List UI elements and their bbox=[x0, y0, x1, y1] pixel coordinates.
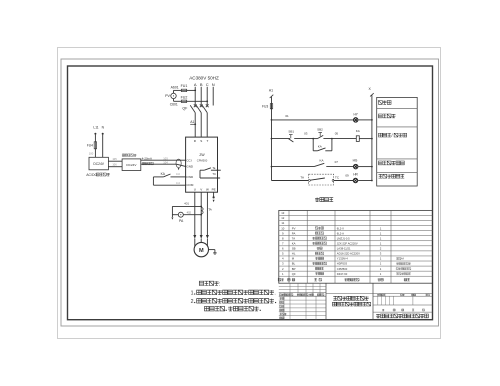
svg-text:FU2: FU2 bbox=[181, 96, 188, 100]
shielded cable symbol bbox=[176, 159, 181, 170]
table row: fuse bbox=[378, 101, 391, 105]
power supply DC24V (AC/DC) bbox=[86, 157, 110, 177]
svg-text:M: M bbox=[199, 248, 204, 254]
svg-text:CPM500: CPM500 bbox=[197, 159, 208, 163]
BOM rows bbox=[281, 211, 411, 276]
svg-text:110: 110 bbox=[176, 173, 181, 176]
relay contact Ta/TC inside inverter bbox=[200, 166, 221, 179]
svg-text:DC24V: DC24V bbox=[126, 163, 137, 167]
svg-text:TA: TA bbox=[292, 236, 296, 240]
notes heading bbox=[199, 281, 220, 287]
wire 104 (current input) bbox=[141, 161, 186, 167]
current transformer TA bbox=[201, 207, 212, 214]
node A1 control tap bbox=[190, 120, 196, 125]
svg-text:N: N bbox=[212, 82, 215, 87]
svg-text:12: 12 bbox=[281, 216, 285, 220]
wire V output bbox=[200, 192, 203, 242]
svg-text:B: B bbox=[200, 82, 203, 87]
inverter terminals R S T bbox=[194, 139, 209, 143]
svg-text:C601: C601 bbox=[170, 103, 178, 107]
fuse FU1 bbox=[174, 84, 196, 92]
wire 100 bbox=[89, 152, 94, 156]
svg-text:05: 05 bbox=[335, 132, 339, 136]
svg-text::: : bbox=[219, 282, 220, 288]
inverter terminal COM bbox=[186, 183, 194, 187]
svg-text:QF: QF bbox=[182, 106, 188, 110]
svg-text:A1: A1 bbox=[269, 88, 273, 92]
svg-text:S: S bbox=[200, 139, 202, 143]
phase terminal labels A B C N bbox=[194, 82, 215, 87]
svg-text:COM: COM bbox=[186, 183, 194, 187]
wire neutral N drop bbox=[212, 87, 214, 106]
svg-text:PE: PE bbox=[212, 188, 216, 192]
svg-text:03: 03 bbox=[304, 132, 308, 136]
svg-text:HG: HG bbox=[353, 158, 358, 162]
ground (meter circuit) bbox=[171, 206, 173, 219]
svg-text:6L2-A: 6L2-A bbox=[337, 231, 344, 235]
svg-text:C: C bbox=[206, 82, 209, 87]
svg-text:KA: KA bbox=[318, 144, 322, 148]
svg-text:CCI: CCI bbox=[186, 158, 191, 162]
ammeter PA bbox=[172, 212, 184, 223]
lamp HY (power indication) bbox=[353, 112, 372, 122]
svg-text:PV: PV bbox=[292, 226, 296, 230]
svg-text:01: 01 bbox=[285, 114, 289, 118]
stage mark / weight / scale headers bbox=[377, 294, 429, 296]
svg-text:A1: A1 bbox=[190, 120, 194, 124]
svg-text:QF: QF bbox=[292, 272, 296, 276]
svg-text:HR: HR bbox=[353, 173, 358, 177]
BOM header row bbox=[278, 278, 410, 281]
svg-text:6L2-V: 6L2-V bbox=[337, 226, 344, 230]
wire 01 (rung 1) bbox=[271, 114, 354, 121]
lamp HG (run indication) bbox=[353, 158, 373, 168]
svg-text:L11: L11 bbox=[93, 126, 98, 130]
sheet count row (gong zhang di zhang) bbox=[382, 309, 424, 311]
svg-text:KA: KA bbox=[319, 159, 323, 163]
svg-text:SB1: SB1 bbox=[288, 130, 294, 134]
relay contact KA (run) bbox=[271, 159, 354, 168]
table row: fault indication bbox=[378, 174, 404, 178]
svg-text:2: 2 bbox=[191, 299, 194, 305]
wire phase B drop bbox=[200, 87, 202, 105]
svg-text:13: 13 bbox=[281, 211, 285, 215]
node junction on phase C bbox=[206, 100, 208, 102]
svg-text:DZ47-60: DZ47-60 bbox=[337, 272, 348, 276]
svg-text:402: 402 bbox=[187, 211, 192, 215]
voltmeter PV bbox=[165, 90, 176, 101]
ground (motor frame) bbox=[209, 250, 217, 255]
inverter U1 ZW CPM500 bbox=[186, 137, 218, 192]
wire 106 bbox=[108, 163, 122, 167]
pressure transmitter BL bbox=[122, 154, 141, 171]
svg-text:Ta: Ta bbox=[212, 166, 215, 170]
svg-text:AC/DC: AC/DC bbox=[86, 173, 97, 177]
title block grid bbox=[279, 283, 433, 320]
relay contact KA (seal-in) bbox=[313, 139, 332, 151]
svg-text:FU4: FU4 bbox=[87, 143, 93, 147]
wire 05 bbox=[323, 132, 356, 140]
inverter terminal GND bbox=[186, 164, 194, 168]
svg-text:PA: PA bbox=[292, 231, 296, 235]
wire COM return bbox=[153, 177, 185, 185]
wire 103 (4-20mA) bbox=[141, 156, 186, 160]
svg-text:BP: BP bbox=[292, 267, 296, 271]
svg-text:TC: TC bbox=[212, 172, 216, 176]
right rail (X) bbox=[371, 95, 373, 180]
node A601 bbox=[171, 86, 179, 90]
svg-text:FWD: FWD bbox=[186, 175, 194, 179]
svg-text:HDP503: HDP503 bbox=[337, 262, 348, 266]
svg-text:U: U bbox=[194, 188, 196, 192]
svg-text:TA: TA bbox=[208, 208, 212, 212]
node junction on phase A bbox=[194, 90, 196, 92]
button SB1 (stop, NC) bbox=[288, 130, 294, 142]
svg-text:KA: KA bbox=[356, 129, 360, 133]
wire W output bbox=[206, 192, 209, 246]
node X (neutral rail) bbox=[368, 87, 373, 96]
function table frame bbox=[377, 97, 418, 186]
svg-text:ZW: ZW bbox=[199, 153, 205, 157]
svg-text:JZX-22F AC220V: JZX-22F AC220V bbox=[337, 242, 358, 246]
svg-text:10: 10 bbox=[281, 226, 285, 230]
terminal N bbox=[102, 126, 105, 135]
drawing title: pressure-transmitter feedback constant pressure water supply bbox=[332, 296, 370, 306]
svg-text:SB2: SB2 bbox=[317, 127, 323, 131]
svg-text:PV: PV bbox=[165, 94, 170, 98]
wire phase C drop bbox=[206, 87, 208, 105]
svg-text:AC380V 50HZ: AC380V 50HZ bbox=[189, 75, 219, 80]
table row: run indication bbox=[378, 161, 404, 165]
motor M bbox=[194, 242, 208, 256]
svg-text:W: W bbox=[206, 188, 209, 192]
svg-text:A601: A601 bbox=[171, 86, 179, 90]
lamp HR (fault indication) bbox=[353, 173, 373, 183]
ground PE bbox=[213, 192, 215, 202]
button SB2 (start, NO) bbox=[313, 127, 323, 138]
svg-text:AD16-22D AC220V: AD16-22D AC220V bbox=[337, 252, 360, 256]
svg-text:07: 07 bbox=[335, 160, 339, 164]
svg-text:V: V bbox=[200, 188, 202, 192]
wire N to supply bbox=[102, 135, 104, 158]
note line 1 bbox=[191, 290, 276, 296]
svg-text:401: 401 bbox=[184, 201, 189, 205]
svg-text:112: 112 bbox=[176, 182, 181, 185]
table row: start/stop button bbox=[378, 133, 406, 138]
svg-text:105: 105 bbox=[112, 157, 117, 161]
svg-text:4A: 4A bbox=[401, 258, 404, 261]
node C601 bbox=[170, 103, 178, 107]
svg-text:GND: GND bbox=[186, 164, 194, 168]
svg-text:T: T bbox=[206, 139, 208, 143]
svg-text:11: 11 bbox=[281, 221, 284, 225]
breaker QF bbox=[182, 104, 208, 112]
svg-text:PA: PA bbox=[179, 219, 184, 223]
wire 402 (CT secondary bottom) bbox=[183, 211, 202, 216]
svg-text:DC24V: DC24V bbox=[93, 162, 104, 166]
wire U output bbox=[193, 192, 196, 246]
left rail (A1) bbox=[271, 97, 273, 181]
note line 3 bbox=[205, 306, 261, 310]
caption: secondary circuit (er ci hui lu) bbox=[315, 198, 333, 202]
wire 401 (CT secondary top) bbox=[172, 201, 202, 207]
revision header row (biaoji chushu fenqu ...) bbox=[279, 294, 323, 296]
company name: Shanghai electronics equipment Co. bbox=[376, 314, 428, 318]
svg-text:100: 100 bbox=[89, 152, 94, 156]
svg-text:.: . bbox=[274, 291, 275, 297]
wire 03 bbox=[294, 132, 314, 140]
signature rows (sheji jiaodu shenhe ...) bbox=[280, 297, 287, 319]
wire phase A drop bbox=[194, 87, 196, 105]
svg-text:1: 1 bbox=[191, 291, 194, 297]
svg-text:BL: BL bbox=[292, 262, 296, 266]
fuse FU3 bbox=[262, 104, 273, 109]
node A1 (control rail) bbox=[269, 88, 273, 98]
relay coil KA bbox=[356, 129, 373, 141]
svg-text:FU1: FU1 bbox=[181, 84, 188, 88]
net label AC380V 50HZ bbox=[189, 75, 219, 80]
fault contact TA-TC (dashed) bbox=[272, 174, 340, 185]
svg-text:LA38-11/21: LA38-11/21 bbox=[337, 247, 351, 251]
wire 105 bbox=[108, 157, 122, 161]
svg-text:LMZJ1-0.5: LMZJ1-0.5 bbox=[337, 236, 350, 240]
svg-text:FU3: FU3 bbox=[262, 105, 268, 109]
BOM table frame bbox=[279, 210, 433, 283]
svg-text:09: 09 bbox=[345, 173, 349, 177]
svg-text:TA: TA bbox=[300, 176, 304, 180]
inverter terminal FWD bbox=[186, 175, 194, 179]
svg-text:A: A bbox=[194, 82, 197, 87]
wire QF to inverter (A,B,C) bbox=[195, 113, 207, 138]
svg-text:HL: HL bbox=[292, 252, 296, 256]
inverter terminal CCI bbox=[186, 158, 191, 162]
note line 2 bbox=[191, 299, 277, 305]
relay contact KA (FWD enable) bbox=[153, 172, 185, 177]
wire rung 2 bbox=[271, 138, 290, 140]
svg-text:106: 106 bbox=[112, 163, 117, 167]
inverter terminals U V W PE bbox=[194, 188, 216, 192]
svg-text:Y132M-4: Y132M-4 bbox=[337, 257, 348, 261]
svg-text:KA: KA bbox=[292, 242, 296, 246]
fuse FU4 bbox=[87, 135, 97, 158]
svg-text:SB: SB bbox=[292, 247, 296, 251]
fuse FU2 bbox=[174, 96, 208, 103]
svg-text:CPM500: CPM500 bbox=[337, 267, 348, 271]
table row: power indication bbox=[378, 114, 395, 118]
terminal L11 bbox=[93, 126, 98, 135]
wire 09 bbox=[334, 173, 353, 180]
